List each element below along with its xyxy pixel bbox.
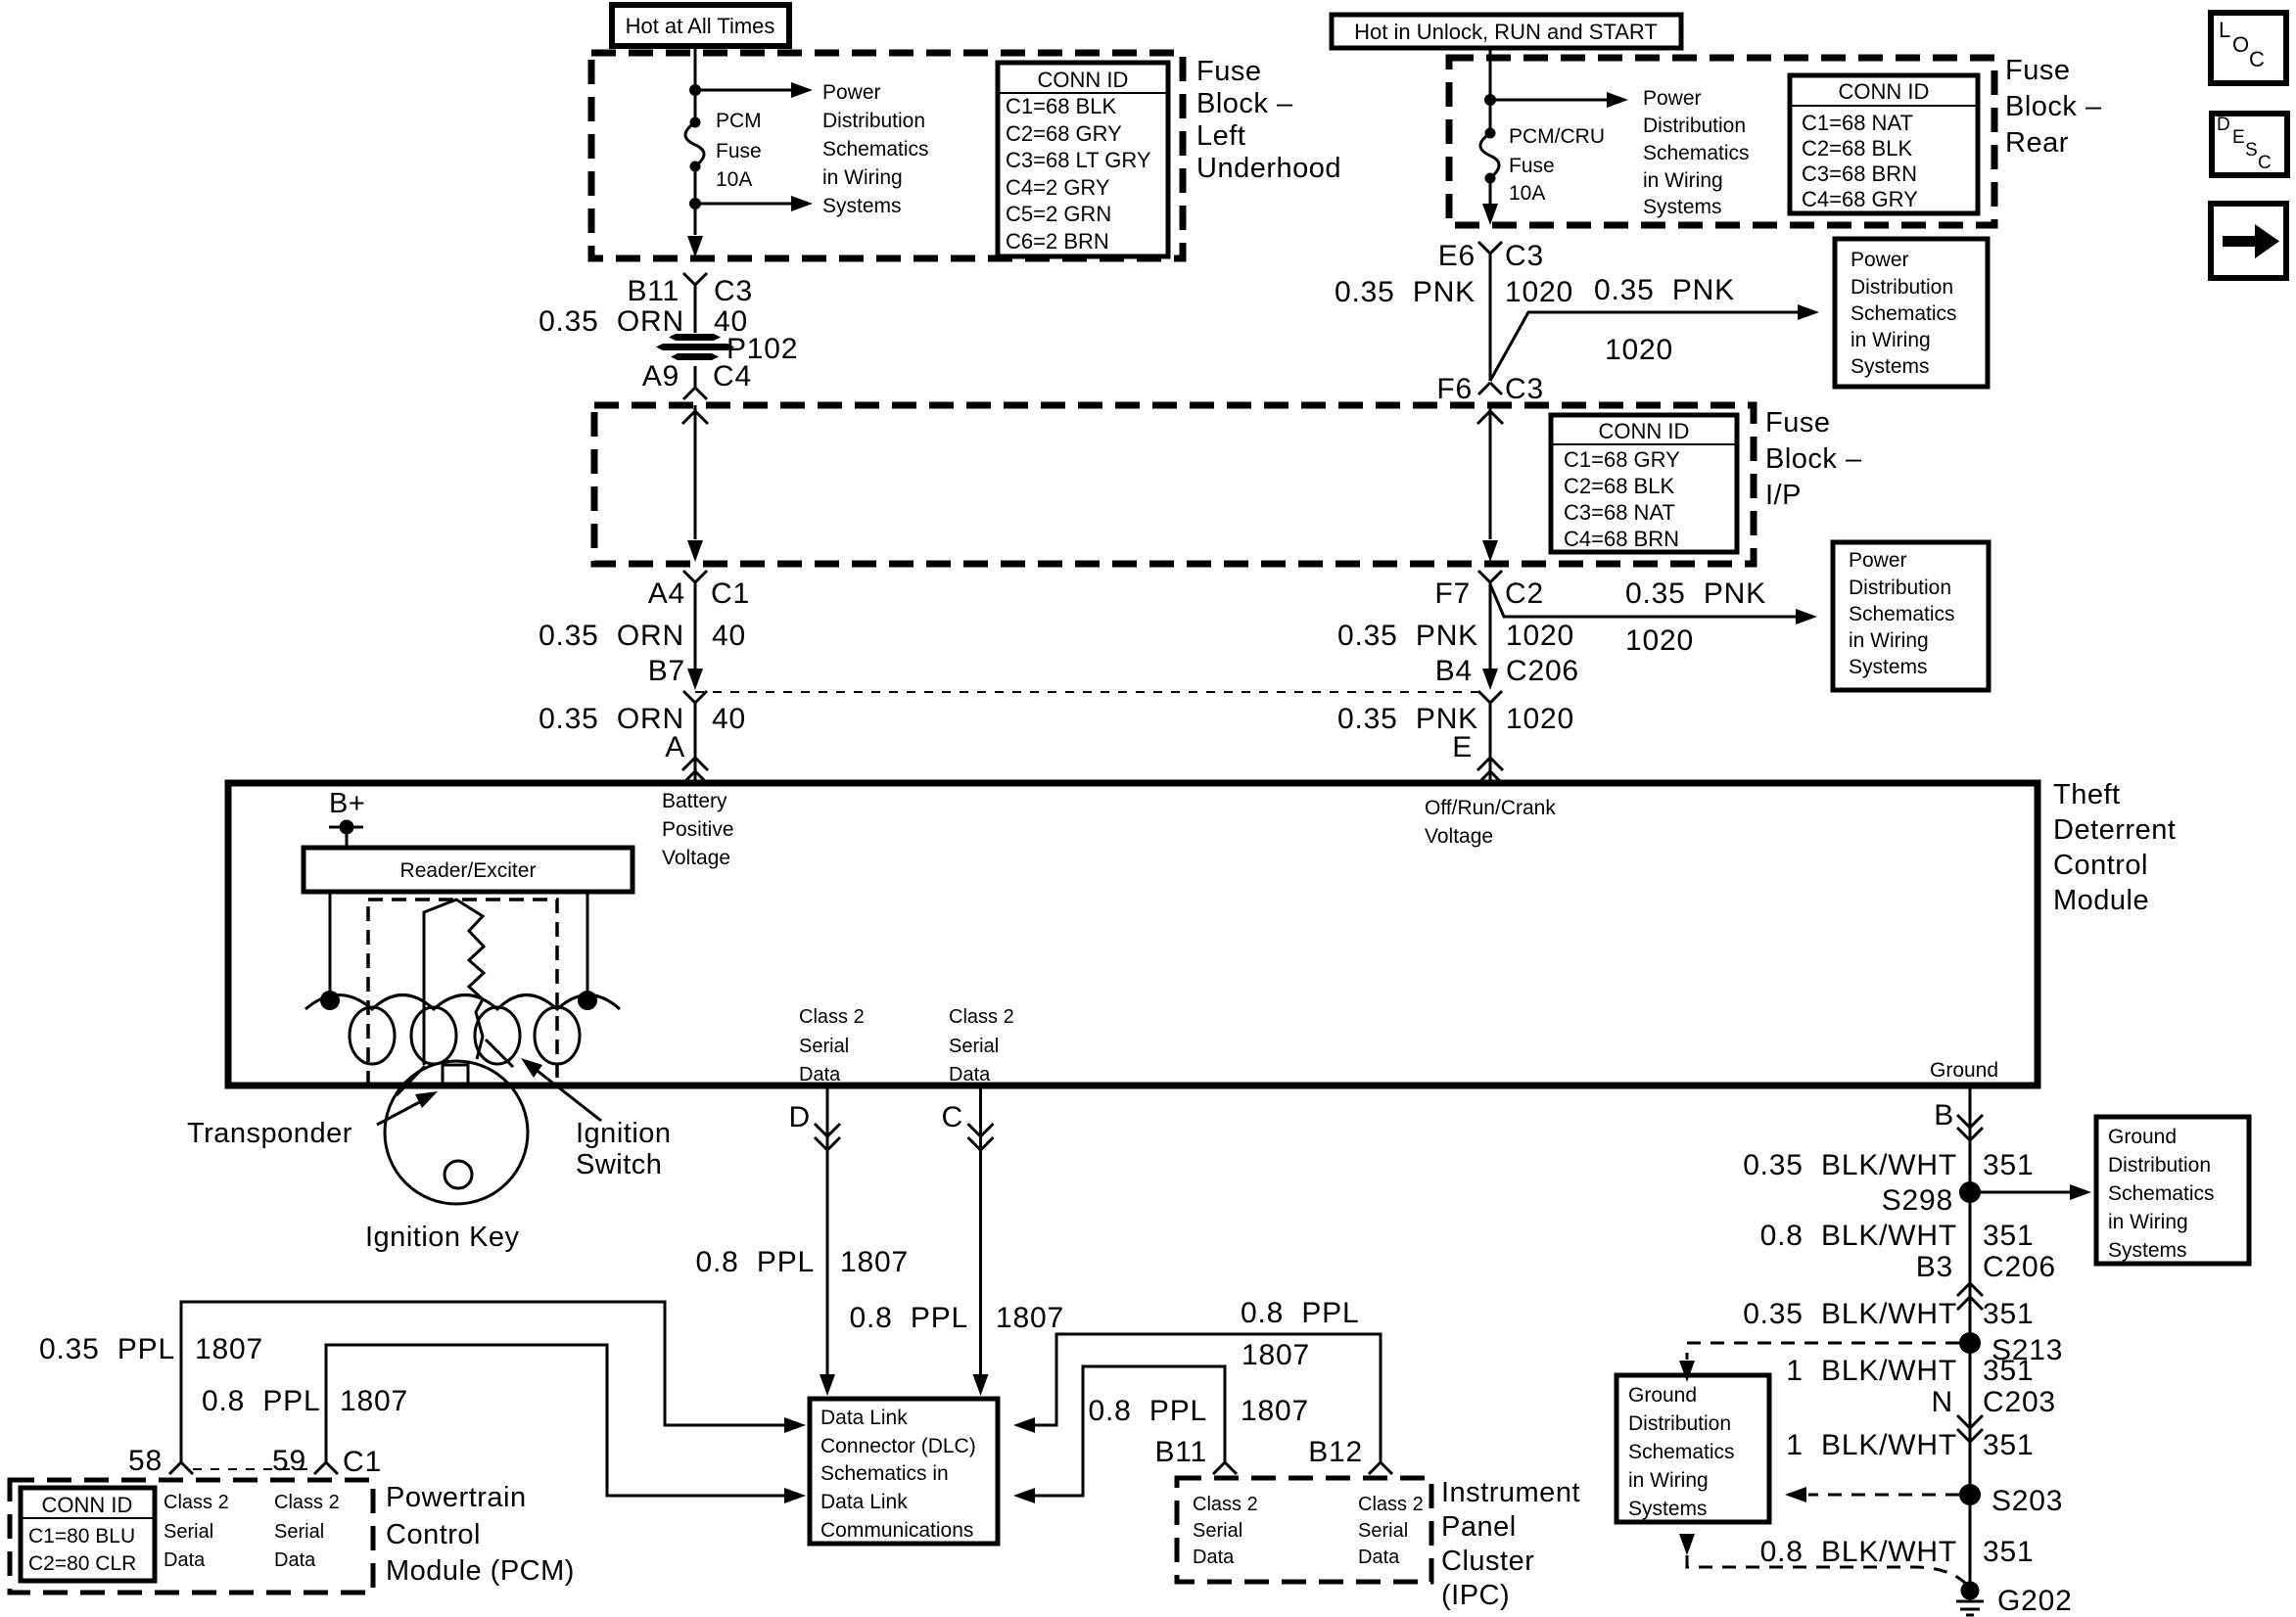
connector C1 inline dashed line PCM: [193, 1468, 314, 1470]
pin 59 chevron: [314, 1462, 338, 1474]
svg-text:Power: Power: [1849, 549, 1907, 572]
svg-text:C3: C3: [1505, 240, 1544, 272]
node coil right dot: [578, 991, 597, 1010]
wire arrow to Power Distribution upper: [695, 89, 791, 92]
svg-text:0.35 ORN: 0.35 ORN: [539, 305, 684, 338]
node junction dot lower: [689, 198, 701, 209]
svg-text:Distribution: Distribution: [822, 110, 925, 132]
wire reader right leg: [586, 892, 589, 994]
svg-text:C1: C1: [343, 1446, 382, 1478]
svg-text:C2=68 BLK: C2=68 BLK: [1564, 474, 1674, 498]
ignition key head circle: [385, 1061, 528, 1204]
connector C206 inline dashed line: [695, 691, 1488, 693]
svg-text:Data: Data: [949, 1064, 991, 1086]
svg-text:C2=80 CLR: C2=80 CLR: [28, 1552, 136, 1575]
pin E6 chevron: [1478, 242, 1502, 254]
banner Hot at All Times: [612, 5, 789, 46]
wire E to module: [1489, 703, 1492, 783]
svg-text:0.35 PNK: 0.35 PNK: [1594, 274, 1735, 306]
svg-text:Class 2: Class 2: [1358, 1494, 1424, 1515]
wire from Hot banner into fuse block: [694, 46, 697, 117]
pin B12 chevron IPC: [1369, 1462, 1392, 1474]
svg-text:40: 40: [712, 703, 746, 735]
svg-text:10A: 10A: [1509, 182, 1545, 205]
svg-text:Class 2: Class 2: [799, 1006, 865, 1028]
wire fuse output down: [694, 171, 697, 235]
svg-text:Schematics: Schematics: [822, 138, 929, 161]
splice pass-through P102: [656, 334, 734, 360]
module box Theft Deterrent Control Module: [228, 783, 2038, 1086]
svg-text:B+: B+: [329, 788, 365, 819]
wire PCM pin 59 to DLC: [326, 1345, 784, 1496]
node junction dot rear: [1484, 94, 1496, 106]
label Instrument Panel Cluster (IPC): [1441, 1477, 1580, 1611]
coil scallop wave: [305, 995, 620, 1010]
svg-text:Fuse: Fuse: [1509, 155, 1555, 177]
svg-text:C: C: [942, 1101, 963, 1133]
corner box next-page arrow: [2211, 204, 2286, 278]
reference box Power Distribution Schematics in Wiring Systems: [1835, 239, 1988, 387]
wire from banner into rear fuse block: [1489, 48, 1492, 128]
svg-text:C6=2 BRN: C6=2 BRN: [1006, 229, 1109, 254]
label Class 2 Serial Data right: [949, 1006, 1014, 1086]
svg-text:F6: F6: [1436, 373, 1473, 405]
splice S203: [1959, 1484, 1981, 1505]
svg-text:Systems: Systems: [1851, 355, 1930, 378]
label Off/Run/Crank Voltage: [1425, 797, 1556, 848]
corner box DESC: [2212, 114, 2287, 175]
svg-text:D: D: [2217, 115, 2230, 135]
svg-text:D: D: [789, 1101, 811, 1133]
svg-text:Ground: Ground: [1628, 1384, 1697, 1407]
wire right inside I/P block: [1489, 405, 1492, 539]
connector C206 chevrons on ground wire: [1957, 1283, 1983, 1296]
svg-text:C2: C2: [1505, 577, 1544, 610]
label Class 2 Serial Data IPC B12: [1358, 1494, 1424, 1568]
svg-text:in Wiring: in Wiring: [1628, 1469, 1709, 1492]
svg-text:0.35 PPL: 0.35 PPL: [39, 1333, 175, 1365]
svg-text:S203: S203: [1991, 1485, 2063, 1517]
connector table CONN ID rear: [1790, 75, 1978, 213]
svg-text:Transponder: Transponder: [187, 1118, 352, 1149]
svg-text:1807: 1807: [1241, 1395, 1309, 1427]
fuse PCM/CRU Fuse 10A symbol: [1485, 128, 1496, 139]
ignition key hole: [445, 1161, 472, 1188]
svg-text:I/P: I/P: [1765, 480, 1802, 511]
banner Hot in Unlock, RUN and START: [1332, 15, 1681, 48]
svg-text:C206: C206: [1983, 1251, 2056, 1283]
wire arrow to Power Distribution lower: [695, 203, 791, 206]
svg-text:A: A: [665, 731, 685, 763]
fuse block left underhood dashed box: [591, 53, 1183, 258]
svg-text:PCM/CRU: PCM/CRU: [1509, 125, 1605, 148]
svg-text:A9: A9: [642, 360, 679, 393]
svg-text:Data Link: Data Link: [820, 1491, 908, 1513]
svg-text:Data: Data: [1358, 1547, 1400, 1568]
svg-text:1 BLK/WHT: 1 BLK/WHT: [1786, 1355, 1957, 1387]
svg-text:Data: Data: [274, 1549, 316, 1571]
svg-text:Positive: Positive: [662, 818, 734, 841]
svg-text:59: 59: [272, 1445, 306, 1477]
svg-text:1020: 1020: [1505, 276, 1573, 308]
svg-text:40: 40: [712, 620, 746, 652]
svg-text:Power: Power: [1851, 249, 1909, 271]
svg-text:Power: Power: [1643, 87, 1702, 110]
svg-text:0.35 PNK: 0.35 PNK: [1337, 620, 1478, 652]
svg-text:C1=68 GRY: C1=68 GRY: [1564, 447, 1680, 472]
svg-text:Rear: Rear: [2005, 127, 2069, 159]
ground G202 symbol: [1956, 1582, 1984, 1616]
svg-text:0.8 BLK/WHT: 0.8 BLK/WHT: [1760, 1220, 1957, 1252]
svg-text:F7: F7: [1434, 577, 1471, 610]
svg-text:Data Link: Data Link: [820, 1407, 908, 1429]
svg-text:C1: C1: [711, 577, 750, 610]
svg-text:0.35 PNK: 0.35 PNK: [1625, 577, 1766, 610]
svg-text:Ground: Ground: [2108, 1126, 2177, 1148]
svg-text:CONN ID: CONN ID: [1599, 419, 1690, 443]
dashed branch below ground distribution lower: [1679, 1534, 1695, 1555]
pin 58 chevron: [169, 1462, 193, 1474]
svg-text:N: N: [1932, 1386, 1953, 1418]
svg-text:Distribution: Distribution: [1643, 115, 1746, 137]
fuse block I/P dashed box: [594, 405, 1754, 564]
svg-text:Schematics in: Schematics in: [820, 1462, 949, 1485]
svg-text:B11: B11: [627, 275, 679, 307]
svg-text:PCM: PCM: [716, 110, 762, 132]
svg-text:Data: Data: [164, 1549, 206, 1571]
svg-text:0.8 BLK/WHT: 0.8 BLK/WHT: [1760, 1536, 1957, 1568]
pin B11 chevron IPC: [1213, 1462, 1237, 1474]
coil loop 2: [411, 1007, 456, 1064]
pin A9 chevron into I/P block: [683, 388, 707, 399]
svg-text:Panel: Panel: [1441, 1511, 1517, 1543]
svg-text:Block –: Block –: [1196, 88, 1293, 119]
svg-text:Fuse: Fuse: [1196, 56, 1261, 87]
svg-text:B3: B3: [1916, 1251, 1953, 1283]
svg-text:Reader/Exciter: Reader/Exciter: [400, 859, 537, 882]
svg-text:C1=80 BLU: C1=80 BLU: [28, 1525, 135, 1548]
svg-text:Underhood: Underhood: [1196, 153, 1341, 184]
wire A4 down: [694, 582, 697, 676]
svg-text:Systems: Systems: [2108, 1239, 2187, 1262]
svg-text:Distribution: Distribution: [1851, 276, 1953, 299]
svg-text:1807: 1807: [195, 1333, 263, 1365]
svg-text:1807: 1807: [1242, 1339, 1310, 1371]
svg-text:0.35 BLK/WHT: 0.35 BLK/WHT: [1743, 1298, 1957, 1330]
svg-text:C: C: [2249, 47, 2265, 71]
svg-text:Control: Control: [2053, 850, 2148, 881]
svg-text:C1=68 BLK: C1=68 BLK: [1006, 94, 1116, 118]
svg-text:351: 351: [1983, 1536, 2034, 1568]
connector C203 chevrons: [1957, 1415, 1983, 1428]
wire C from module to DLC: [979, 1086, 982, 1374]
svg-text:C: C: [2258, 153, 2272, 173]
svg-text:Schematics: Schematics: [1849, 603, 1955, 625]
svg-text:B12: B12: [1308, 1436, 1363, 1468]
svg-text:Module (PCM): Module (PCM): [386, 1555, 575, 1587]
svg-text:1807: 1807: [996, 1302, 1064, 1334]
svg-text:Cluster: Cluster: [1441, 1546, 1534, 1577]
svg-text:B4: B4: [1435, 655, 1473, 687]
svg-text:1020: 1020: [1625, 624, 1694, 657]
wire F7 down: [1489, 582, 1492, 676]
connector table CONN ID left underhood: [998, 63, 1168, 256]
svg-text:0.35 BLK/WHT: 0.35 BLK/WHT: [1743, 1149, 1957, 1181]
wire left inside I/P block: [694, 405, 697, 539]
svg-text:Distribution: Distribution: [1628, 1412, 1731, 1435]
pin F6 chevron into I/P block: [1478, 383, 1502, 394]
reference box Power Distribution Schematics I/P: [1833, 542, 1989, 690]
svg-text:S298: S298: [1882, 1184, 1953, 1217]
splice S213: [1959, 1332, 1981, 1354]
svg-text:Fuse: Fuse: [716, 140, 762, 162]
svg-text:CONN ID: CONN ID: [42, 1493, 133, 1517]
svg-text:Systems: Systems: [1628, 1498, 1708, 1520]
transponder pointer arrow: [377, 1098, 427, 1125]
svg-text:Control: Control: [386, 1519, 481, 1550]
svg-text:in Wiring: in Wiring: [2108, 1211, 2188, 1233]
svg-text:C3=68 BRN: C3=68 BRN: [1802, 162, 1917, 186]
svg-text:S: S: [2245, 140, 2258, 161]
connector table CONN ID I/P: [1551, 415, 1737, 552]
svg-text:1020: 1020: [1506, 620, 1574, 652]
svg-text:351: 351: [1983, 1220, 2034, 1252]
svg-text:A4: A4: [648, 577, 685, 610]
svg-text:Systems: Systems: [822, 195, 902, 217]
svg-text:C3=68 LT GRY: C3=68 LT GRY: [1006, 148, 1151, 172]
svg-text:Deterrent: Deterrent: [2053, 814, 2176, 846]
svg-text:Fuse: Fuse: [2005, 55, 2070, 86]
IPC dashed box: [1177, 1478, 1431, 1582]
node coil left dot: [320, 991, 340, 1010]
fuse block rear dashed box: [1449, 58, 1994, 225]
svg-text:Hot in Unlock, RUN and START: Hot in Unlock, RUN and START: [1354, 20, 1658, 44]
svg-text:C1=68 NAT: C1=68 NAT: [1802, 111, 1913, 135]
svg-text:Class 2: Class 2: [949, 1006, 1014, 1028]
label Powertrain Control Module (PCM): [386, 1482, 575, 1587]
node junction dot upper: [689, 84, 701, 96]
svg-text:in Wiring: in Wiring: [1851, 329, 1931, 351]
wire IPC pin B11 to DLC: [1035, 1366, 1225, 1496]
svg-text:C4: C4: [713, 360, 752, 393]
label Ignition Switch: [576, 1118, 672, 1180]
svg-text:Voltage: Voltage: [1425, 825, 1493, 848]
svg-text:Theft: Theft: [2053, 779, 2121, 810]
svg-text:0.8 PPL: 0.8 PPL: [850, 1302, 968, 1334]
reference box Ground Distribution Schematics upper: [2096, 1117, 2249, 1264]
wire PCM pin 58 to DLC: [181, 1302, 784, 1462]
svg-text:in Wiring: in Wiring: [1849, 629, 1929, 652]
pin B4 chevron below C206: [1478, 691, 1502, 703]
wire A to module: [694, 703, 697, 783]
svg-text:C5=2 GRN: C5=2 GRN: [1006, 202, 1111, 226]
pin F7 chevron: [1478, 571, 1502, 582]
power node B+: [329, 788, 365, 850]
svg-text:Systems: Systems: [1643, 196, 1722, 218]
transponder dashed box: [368, 900, 557, 1086]
svg-text:E: E: [2232, 127, 2245, 148]
svg-text:(IPC): (IPC): [1441, 1580, 1510, 1611]
svg-text:Power: Power: [822, 81, 881, 104]
svg-text:B7: B7: [648, 655, 685, 687]
svg-text:1807: 1807: [840, 1246, 909, 1278]
wire E6 down to I/P block: [1489, 254, 1492, 381]
svg-text:0.8 PPL: 0.8 PPL: [202, 1385, 320, 1417]
wire rear fuse output down: [1489, 183, 1492, 204]
svg-text:Block –: Block –: [2005, 91, 2102, 122]
svg-text:C4=68 GRY: C4=68 GRY: [1802, 187, 1918, 211]
svg-text:L: L: [2219, 18, 2230, 42]
wire branch F7 to power distribution I/P: [1490, 584, 1796, 617]
label Fuse Block - Left Underhood: [1196, 56, 1341, 184]
svg-text:Block –: Block –: [1765, 443, 1862, 475]
svg-text:Serial: Serial: [949, 1036, 999, 1057]
svg-text:Left: Left: [1196, 120, 1245, 152]
svg-text:Class 2: Class 2: [274, 1492, 340, 1513]
pin B7 chevron below C206: [683, 691, 707, 703]
svg-text:Battery: Battery: [662, 790, 727, 812]
svg-text:E: E: [1452, 731, 1473, 763]
svg-text:Fuse: Fuse: [1765, 407, 1830, 439]
svg-text:Powertrain: Powertrain: [386, 1482, 527, 1513]
dashed branch S213 to ground distribution: [1687, 1343, 1959, 1360]
transponder square: [443, 1065, 468, 1085]
connector table CONN ID PCM: [21, 1488, 155, 1581]
svg-text:Switch: Switch: [576, 1149, 662, 1180]
svg-text:1020: 1020: [1506, 703, 1574, 735]
wire branch diagonal to power distribution: [1490, 312, 1798, 381]
label Power Distribution Schematics in Wiring Systems rear: [1643, 87, 1750, 218]
label Fuse Block - Rear: [2005, 55, 2102, 159]
svg-text:Schematics: Schematics: [2108, 1182, 2215, 1205]
wire ground B from module: [1969, 1086, 1972, 1582]
svg-text:Schematics: Schematics: [1643, 142, 1750, 164]
svg-text:10A: 10A: [716, 168, 752, 191]
svg-text:0.8 PPL: 0.8 PPL: [1241, 1297, 1359, 1329]
label Theft Deterrent Control Module: [2053, 779, 2176, 916]
svg-text:Ground: Ground: [1930, 1059, 1998, 1082]
svg-text:0.35 ORN: 0.35 ORN: [539, 620, 684, 652]
svg-text:Serial: Serial: [799, 1036, 849, 1057]
reference box Data Link Connector DLC: [810, 1399, 998, 1544]
svg-text:O: O: [2232, 32, 2249, 57]
svg-text:Systems: Systems: [1849, 656, 1928, 678]
wire IPC pin B12 to DLC: [1035, 1334, 1381, 1462]
svg-text:Ignition: Ignition: [576, 1118, 672, 1149]
svg-text:C203: C203: [1983, 1386, 2056, 1418]
svg-text:Data: Data: [799, 1064, 841, 1086]
label Power Distribution Schematics in Wiring Systems: [822, 81, 929, 217]
key shoulder lines: [397, 1039, 513, 1095]
svg-text:Schematics: Schematics: [1628, 1441, 1735, 1463]
svg-text:C3: C3: [714, 275, 753, 307]
svg-text:0.35 ORN: 0.35 ORN: [539, 703, 684, 735]
label Class 2 Serial Data PCM pin58: [164, 1492, 229, 1571]
coil loop 4: [535, 1007, 580, 1064]
svg-text:1807: 1807: [340, 1385, 408, 1417]
corner box LOC: [2211, 13, 2286, 83]
svg-text:Serial: Serial: [1193, 1520, 1242, 1542]
pin A4 chevron: [683, 571, 707, 582]
wire D from module to DLC: [826, 1086, 829, 1374]
svg-text:Serial: Serial: [1358, 1520, 1408, 1542]
svg-text:351: 351: [1983, 1355, 2034, 1387]
svg-text:E6: E6: [1438, 240, 1476, 272]
component Reader/Exciter: [304, 848, 633, 892]
ignition switch pointer arrow: [534, 1068, 601, 1121]
wire reader left leg: [329, 892, 332, 994]
svg-text:in Wiring: in Wiring: [822, 166, 903, 189]
svg-text:Communications: Communications: [820, 1519, 973, 1542]
svg-text:351: 351: [1983, 1149, 2034, 1181]
svg-text:C4=2 GRY: C4=2 GRY: [1006, 175, 1110, 200]
svg-text:in Wiring: in Wiring: [1643, 169, 1723, 192]
svg-text:Ignition Key: Ignition Key: [365, 1222, 520, 1253]
svg-text:1020: 1020: [1605, 334, 1673, 366]
dashed branch S203 to ground distribution lower: [1808, 1494, 1959, 1497]
label Class 2 Serial Data PCM pin59: [274, 1492, 340, 1571]
pin B11 chevron: [683, 273, 707, 285]
splice S298: [1959, 1181, 1981, 1203]
svg-text:CONN ID: CONN ID: [1839, 79, 1930, 104]
svg-text:Class 2: Class 2: [164, 1492, 229, 1513]
svg-text:Data: Data: [1193, 1547, 1235, 1568]
label Class 2 Serial Data left: [799, 1006, 865, 1086]
PCM dashed box: [10, 1480, 373, 1593]
label Class 2 Serial Data IPC B11: [1193, 1494, 1258, 1568]
svg-text:C3: C3: [1505, 373, 1544, 405]
svg-text:351: 351: [1983, 1429, 2034, 1461]
svg-text:1 BLK/WHT: 1 BLK/WHT: [1786, 1429, 1957, 1461]
svg-text:CONN ID: CONN ID: [1038, 68, 1129, 92]
svg-text:B11: B11: [1154, 1436, 1207, 1468]
svg-text:C2=68 BLK: C2=68 BLK: [1802, 136, 1912, 161]
svg-text:Instrument: Instrument: [1441, 1477, 1580, 1508]
svg-text:0.8 PPL: 0.8 PPL: [696, 1246, 815, 1278]
svg-text:Module: Module: [2053, 885, 2149, 916]
label Battery Positive Voltage: [662, 790, 734, 869]
coil loop 3: [475, 1007, 520, 1064]
connector C206 arrow right side: [1482, 669, 1498, 690]
svg-text:Voltage: Voltage: [662, 847, 730, 869]
wire B11 to splice: [694, 285, 697, 333]
svg-text:Connector (DLC): Connector (DLC): [820, 1435, 976, 1457]
svg-text:Serial: Serial: [274, 1521, 324, 1543]
svg-text:0.8 PPL: 0.8 PPL: [1089, 1395, 1207, 1427]
ignition key blade and resistor zigzag: [424, 900, 484, 1065]
coil loop 1: [350, 1007, 395, 1064]
svg-text:C3=68 NAT: C3=68 NAT: [1564, 500, 1675, 525]
reference box Ground Distribution Schematics lower: [1617, 1375, 1769, 1522]
fuse PCM Fuse 10A symbol: [690, 117, 701, 128]
svg-text:C2=68 GRY: C2=68 GRY: [1006, 121, 1122, 146]
wire arrow to Power Distribution rear: [1490, 99, 1607, 102]
svg-text:Serial: Serial: [164, 1521, 213, 1543]
wire arrow S298 to ground distribution: [1981, 1191, 2070, 1194]
svg-text:Class 2: Class 2: [1193, 1494, 1258, 1515]
svg-text:Distribution: Distribution: [1849, 577, 1951, 599]
svg-text:351: 351: [1983, 1298, 2034, 1330]
label Fuse Block - I/P: [1765, 407, 1862, 511]
svg-text:58: 58: [128, 1445, 163, 1477]
svg-text:G202: G202: [1997, 1585, 2073, 1617]
svg-text:B: B: [1934, 1099, 1954, 1132]
svg-text:0.35 PNK: 0.35 PNK: [1335, 276, 1476, 308]
svg-text:Off/Run/Crank: Off/Run/Crank: [1425, 797, 1556, 819]
wire splice down to I/P block: [694, 366, 697, 388]
svg-text:Distribution: Distribution: [2108, 1154, 2211, 1177]
svg-text:Hot at All Times: Hot at All Times: [626, 14, 775, 38]
